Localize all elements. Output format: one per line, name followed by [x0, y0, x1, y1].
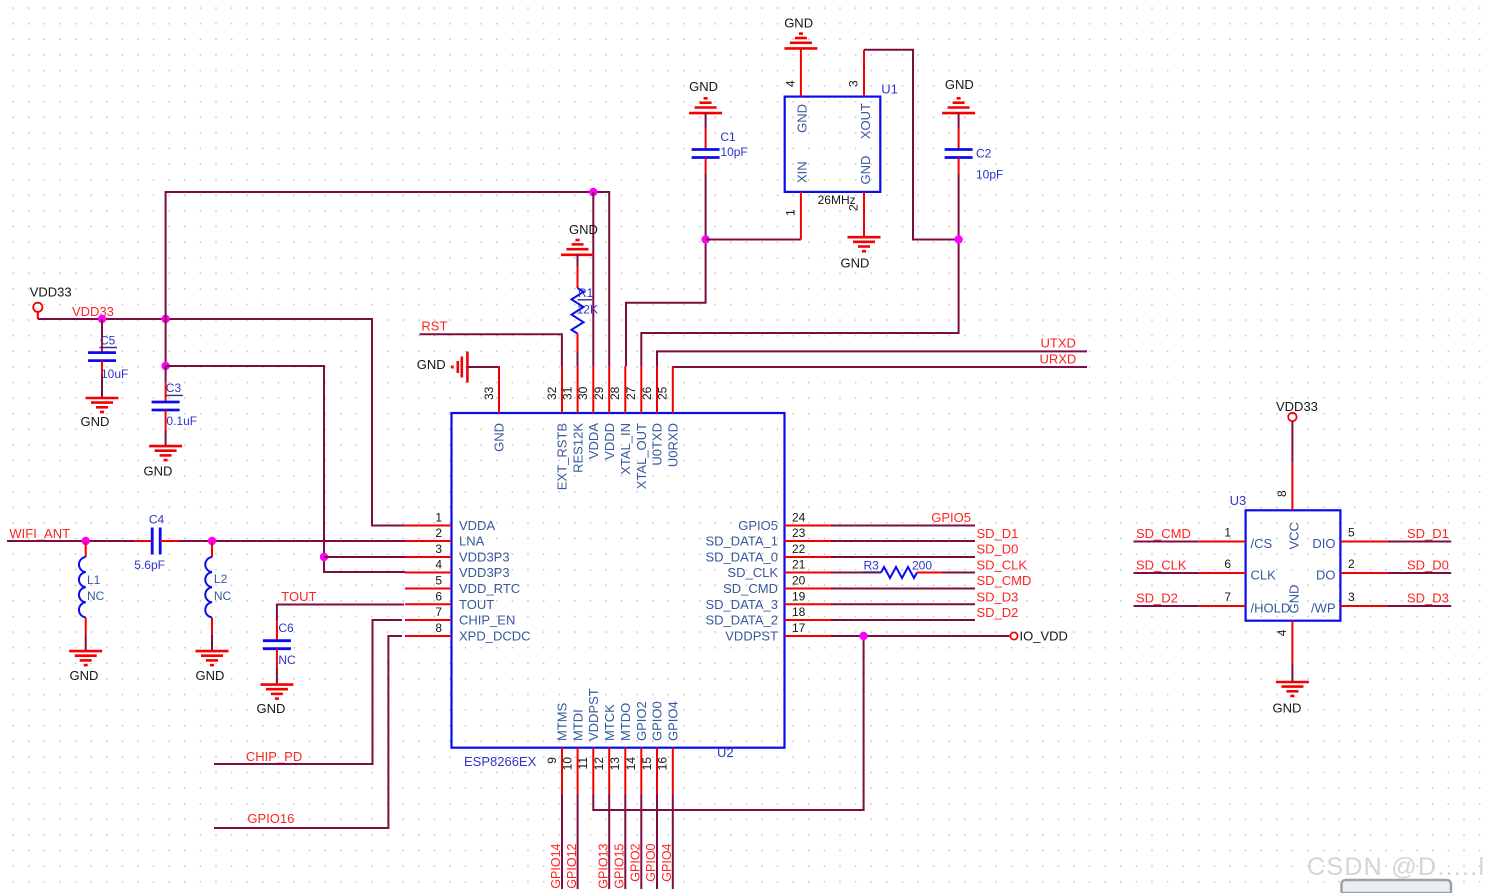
junction VDD3P3 pin3 tap: [320, 553, 328, 561]
U2 pin 9 MTMS stub: [561, 748, 563, 795]
wire SD_DATA_3: [831, 603, 975, 605]
C2 bottom lead: [958, 158, 960, 175]
wire VDD33 to C5: [101, 319, 103, 338]
wire VDDPST pin11 to pin17 riser: [593, 636, 863, 810]
svg-text:GPIO5: GPIO5: [931, 510, 971, 525]
svg-text:L1: L1: [87, 573, 101, 587]
C4 left lead: [134, 540, 152, 542]
svg-text:1: 1: [783, 209, 797, 216]
svg-text:RES12K: RES12K: [570, 423, 585, 473]
svg-text:27: 27: [624, 386, 638, 400]
capacitor C2: [945, 150, 973, 158]
svg-text:R3: R3: [864, 559, 880, 573]
U3 pin 2 DO stub: [1340, 572, 1387, 574]
resistor R3 200: [881, 567, 917, 578]
svg-text:CSDN @D.....l: CSDN @D.....l: [1307, 853, 1485, 881]
ground above U1 pin4: [784, 34, 817, 49]
U3 pin 6 CLK stub: [1199, 572, 1246, 574]
svg-text:MTMS: MTMS: [555, 702, 570, 741]
U2 pin 3 VDD3P3 stub: [405, 556, 452, 558]
svg-text:21: 21: [792, 558, 806, 572]
wire U0RXD to URXD: [673, 366, 1087, 368]
svg-text:SD_D1: SD_D1: [977, 526, 1019, 541]
wire CHIP_PD to U2 pin7 CHIP_EN: [214, 620, 402, 764]
svg-text:U2: U2: [717, 745, 734, 760]
wire GPIO0 down from pin 15: [656, 795, 658, 890]
wire VDD33 rail to U2 pin1 VDDA: [38, 319, 405, 526]
svg-text:2: 2: [847, 204, 861, 211]
wire SD_CLK to U3 pin 6: [1134, 572, 1199, 574]
svg-text:SD_D2: SD_D2: [1136, 590, 1178, 605]
junction LNA/L2: [208, 537, 216, 545]
U2 pin 4 VDD3P3 stub: [405, 572, 452, 574]
ground above C1: [689, 98, 722, 113]
U2 pin 31 RES12K stub: [577, 366, 579, 413]
IC U3 body: [1246, 510, 1341, 620]
svg-text:GPIO4: GPIO4: [666, 701, 681, 741]
svg-text:CHIP_EN: CHIP_EN: [459, 613, 515, 628]
wire VDD3P3 to U2 pin3: [324, 556, 405, 558]
svg-text:7: 7: [1224, 590, 1231, 604]
U2 pin 21 SD_CLK stub: [785, 572, 832, 574]
svg-text:22: 22: [792, 542, 806, 556]
junction WIFI_ANT/L1: [82, 537, 90, 545]
wire C3 to ground: [165, 430, 167, 446]
svg-text:RST: RST: [421, 319, 447, 334]
svg-text:XTAL_IN: XTAL_IN: [618, 423, 633, 475]
U3 pin 1 /CS stub: [1199, 541, 1246, 543]
ground below U3: [1276, 682, 1309, 696]
U2 pin 13 MTDO stub: [624, 748, 626, 795]
wire SD_CMD: [831, 588, 975, 590]
svg-text:1: 1: [435, 511, 442, 525]
svg-text:XPD_DCDC: XPD_DCDC: [459, 629, 531, 644]
wire C6 to ground: [276, 667, 278, 684]
svg-text:VDDD: VDDD: [602, 423, 617, 460]
svg-text:VCC: VCC: [1286, 522, 1301, 549]
wire XOUT to C2/XTAL_OUT net: [864, 50, 959, 240]
svg-text:URXD: URXD: [1039, 351, 1076, 366]
U2 pin 8 XPD_DCDC stub: [405, 635, 452, 637]
svg-text:SD_CLK: SD_CLK: [1136, 557, 1187, 572]
U2 pin 28 XTAL_IN stub: [624, 366, 626, 413]
resistor R1 12K: [572, 288, 584, 334]
svg-text:5: 5: [1348, 526, 1355, 540]
junction VDDPST riser: [859, 632, 867, 640]
svg-text:11: 11: [576, 757, 590, 770]
wire GPIO15 down from pin 13: [624, 795, 626, 890]
U1 pin3 stub: [863, 50, 865, 97]
svg-text:2: 2: [435, 526, 442, 540]
R1 bottom lead: [577, 334, 579, 352]
svg-text:VDD_RTC: VDD_RTC: [459, 581, 520, 596]
svg-text:17: 17: [792, 621, 806, 635]
svg-text:1: 1: [1224, 526, 1231, 540]
wire SD_DATA_0: [831, 556, 975, 558]
junction VDD33/C5: [98, 315, 106, 323]
svg-text:13: 13: [608, 757, 622, 771]
svg-text:DIO: DIO: [1312, 536, 1335, 551]
svg-text:23: 23: [792, 526, 806, 540]
C3 bottom lead: [165, 410, 167, 430]
svg-text:NC: NC: [214, 589, 232, 603]
wire C2/XTAL_OUT net to U2 pin27: [641, 174, 958, 366]
svg-text:29: 29: [592, 386, 606, 400]
watermark box: [1342, 880, 1452, 893]
svg-text:200: 200: [912, 559, 932, 573]
wire VDD33 down to C3 node: [165, 319, 167, 366]
wire R3 to SD_CLK label: [942, 572, 975, 574]
U2 pin 7 CHIP_EN stub: [405, 619, 452, 621]
svg-text:CLK: CLK: [1251, 568, 1277, 583]
wire VDDPST to IO_VDD: [831, 635, 1010, 637]
junction VDD pin30 tap: [589, 188, 597, 196]
svg-text:GPIO16: GPIO16: [247, 811, 294, 826]
U3 pin 3 /WP stub: [1340, 605, 1387, 607]
svg-text:/WP: /WP: [1311, 601, 1336, 616]
svg-text:8: 8: [435, 621, 442, 635]
svg-text:0.1uF: 0.1uF: [166, 414, 197, 428]
svg-text:VDDPST: VDDPST: [725, 629, 778, 644]
U2 pin 6 TOUT stub: [405, 603, 452, 605]
U2 pin 15 GPIO0 stub: [656, 748, 658, 795]
C6 top lead: [276, 621, 278, 640]
U1 pin4 stub: [800, 48, 802, 96]
svg-text:30: 30: [576, 386, 590, 400]
R1 top lead: [577, 267, 579, 289]
svg-text:GPIO5: GPIO5: [738, 518, 778, 533]
svg-text:10: 10: [560, 757, 574, 771]
wire VDD33 terminal stem: [37, 312, 39, 319]
junction VDD33/C3 riser: [161, 315, 169, 323]
capacitor C1: [692, 150, 720, 158]
svg-text:3: 3: [1348, 590, 1355, 604]
svg-text:VDDPST: VDDPST: [586, 688, 601, 741]
U3 pin 5 DIO stub: [1340, 541, 1387, 543]
wire SD_D0 from U3 pin 2: [1387, 572, 1451, 574]
ground below C3: [149, 446, 182, 460]
wire SD_DATA_2: [831, 619, 975, 621]
svg-text:DO: DO: [1316, 568, 1336, 583]
svg-text:SD_DATA_0: SD_DATA_0: [706, 550, 779, 565]
svg-text:WIFI_ANT: WIFI_ANT: [9, 526, 70, 541]
U2 pin 14 GPIO2 stub: [640, 748, 642, 795]
wire GPIO4 down from pin 16: [672, 795, 674, 890]
svg-text:3: 3: [847, 80, 861, 87]
U2 pin 26 U0TXD stub: [656, 366, 658, 413]
svg-text:3: 3: [435, 542, 442, 556]
svg-text:R1: R1: [578, 286, 594, 300]
svg-text:VDD33: VDD33: [1276, 399, 1318, 414]
ground below C6: [260, 685, 293, 699]
wire U3 pin4 to ground: [1291, 664, 1293, 682]
wire WIFI_ANT to C4: [7, 540, 134, 542]
svg-text:GND: GND: [1286, 585, 1301, 614]
wire L1 to ground: [85, 634, 87, 651]
svg-text:L2: L2: [214, 572, 228, 586]
svg-text:26: 26: [640, 386, 654, 400]
wire GPIO14 down from pin 9: [561, 795, 563, 890]
svg-text:6: 6: [1224, 557, 1231, 571]
inductor L1: [79, 557, 86, 617]
svg-text:SD_CMD: SD_CMD: [1136, 526, 1191, 541]
wire SD_D2 to U3 pin 7: [1134, 605, 1199, 607]
wire ground to C1: [705, 113, 707, 129]
svg-text:C3: C3: [166, 381, 182, 395]
wire TOUT to U2 pin6: [277, 605, 404, 622]
svg-text:XOUT: XOUT: [858, 103, 873, 139]
U2 pin 12 MTCK stub: [608, 748, 610, 795]
U2 pin 5 VDD_RTC stub: [405, 588, 452, 590]
ground above C2: [942, 98, 975, 113]
svg-text:VDD3P3: VDD3P3: [459, 565, 510, 580]
VDD33 terminal circle above U3: [1288, 413, 1296, 421]
svg-text:SD_D3: SD_D3: [1407, 590, 1449, 605]
svg-text:GPIO2: GPIO2: [634, 701, 649, 741]
svg-text:SD_D0: SD_D0: [1407, 557, 1449, 572]
U1 pin2 stub: [863, 192, 865, 237]
svg-text:5.6pF: 5.6pF: [134, 558, 165, 572]
svg-text:C5: C5: [100, 334, 116, 348]
C5 top lead: [101, 338, 103, 353]
svg-text:C1: C1: [720, 130, 736, 144]
svg-text:VDD3P3: VDD3P3: [459, 550, 510, 565]
svg-text:GND: GND: [858, 156, 873, 185]
svg-text:SD_DATA_3: SD_DATA_3: [706, 597, 779, 612]
U2 pin 1 VDDA stub: [405, 525, 452, 527]
capacitor C3: [152, 402, 180, 410]
U2 pin 16 GPIO4 stub: [672, 748, 674, 795]
junction C1/XIN: [701, 235, 709, 243]
svg-text:10uF: 10uF: [101, 367, 128, 381]
svg-text:31: 31: [560, 386, 574, 400]
svg-text:EXT_RSTB: EXT_RSTB: [555, 423, 570, 490]
wire ground to pin33: [467, 366, 498, 368]
svg-text:GND: GND: [417, 357, 446, 372]
wire C1/XTAL_IN net to U2 pin28: [626, 174, 706, 366]
svg-text:33: 33: [482, 386, 496, 400]
svg-text:NC: NC: [87, 589, 105, 603]
U2 pin 2 LNA stub: [405, 540, 452, 542]
svg-text:SD_CLK: SD_CLK: [977, 558, 1028, 573]
svg-text:SD_CMD: SD_CMD: [723, 581, 778, 596]
wire GPIO12 down from pin 10: [577, 795, 579, 890]
U2 pin 25 U0RXD stub: [672, 366, 674, 413]
svg-text:CHIP_PD: CHIP_PD: [246, 749, 302, 764]
ground below C5: [86, 398, 119, 412]
svg-text:U0RXD: U0RXD: [666, 423, 681, 467]
svg-text:14: 14: [624, 757, 638, 771]
ground above R1: [561, 240, 594, 255]
svg-text:7: 7: [435, 605, 442, 619]
svg-text:GND: GND: [492, 423, 507, 452]
svg-text:2: 2: [1348, 557, 1355, 571]
svg-text:4: 4: [1275, 629, 1289, 636]
svg-text:GND: GND: [689, 79, 718, 94]
IO_VDD terminal circle: [1010, 632, 1017, 639]
svg-text:GND: GND: [784, 16, 813, 31]
svg-text:GND: GND: [196, 668, 225, 683]
crystal U1 26MHz body: [785, 97, 881, 192]
ground below L2: [196, 651, 229, 665]
svg-text:UTXD: UTXD: [1041, 336, 1076, 351]
wire VDD33 to U3 pin8: [1291, 421, 1293, 462]
svg-text:VDDA: VDDA: [586, 423, 601, 459]
U2 pin 29 VDDD stub: [608, 366, 610, 413]
junction C2/XOUT: [954, 235, 962, 243]
svg-text:8: 8: [1275, 490, 1289, 497]
U2 pin 17 VDDPST stub: [785, 635, 832, 637]
svg-text:18: 18: [792, 605, 806, 619]
U3 pin8 stub VCC: [1291, 462, 1293, 510]
wire ground to C2: [958, 113, 960, 129]
svg-text:GND: GND: [81, 414, 110, 429]
wire to crystal pin1 XIN: [706, 239, 801, 241]
svg-text:C2: C2: [976, 147, 992, 161]
wire C3 node down: [165, 366, 167, 383]
svg-text:U3: U3: [1230, 493, 1247, 508]
svg-text:GPIO0: GPIO0: [650, 701, 665, 741]
R3 right lead: [917, 572, 942, 574]
U3 pin4 stub GND: [1291, 621, 1293, 664]
wire GPIO2 down from pin 14: [640, 795, 642, 890]
svg-text:SD_CLK: SD_CLK: [727, 565, 778, 580]
C4 right lead: [160, 540, 179, 542]
L2 bottom lead: [211, 618, 213, 635]
C1 top lead: [705, 129, 707, 149]
svg-text:SD_CMD: SD_CMD: [977, 573, 1032, 588]
C2 top lead: [958, 129, 960, 149]
wire GPIO16 to U2 pin8 XPD_DCDC: [214, 636, 402, 828]
svg-text:C6: C6: [278, 621, 294, 635]
wire SD_D1 from U3 pin 5: [1387, 541, 1451, 543]
wire C5 to ground: [101, 375, 103, 398]
svg-text:/HOLD: /HOLD: [1251, 601, 1291, 616]
svg-text:4: 4: [435, 558, 442, 572]
svg-text:24: 24: [792, 511, 806, 525]
U2 pin 23 SD_DATA_1 stub: [785, 540, 832, 542]
svg-text:28: 28: [608, 386, 622, 400]
wire SD_D3 from U3 pin 3: [1387, 605, 1451, 607]
wire GPIO5: [831, 525, 975, 527]
svg-text:20: 20: [792, 574, 806, 588]
U2 pin 32 EXT_RSTB stub: [561, 366, 563, 413]
wire U0TXD to UTXD: [657, 351, 1087, 366]
inductor L2: [205, 557, 212, 617]
ground below U1 pin2: [848, 237, 881, 251]
svg-text:12K: 12K: [577, 303, 598, 317]
C5 bottom lead: [101, 361, 103, 375]
svg-text:GND: GND: [841, 256, 870, 271]
svg-text:5: 5: [435, 574, 442, 588]
L1 bottom lead: [85, 618, 87, 635]
svg-text:9: 9: [545, 757, 559, 764]
wire R1 to U2 pin31 RES12K: [577, 352, 579, 367]
svg-text:VDD33: VDD33: [72, 304, 114, 319]
svg-text:SD_D1: SD_D1: [1407, 526, 1449, 541]
svg-text:IO_VDD: IO_VDD: [1020, 629, 1068, 644]
C3 top lead: [165, 383, 167, 402]
U2 pin 22 SD_DATA_0 stub: [785, 556, 832, 558]
svg-text:MTCK: MTCK: [602, 704, 617, 741]
wire SD_CLK to R3: [831, 572, 881, 574]
svg-text:GND: GND: [945, 77, 974, 92]
svg-text:25: 25: [656, 386, 670, 400]
svg-text:GND: GND: [1273, 701, 1302, 716]
U2 pin 11 VDDPST stub: [592, 748, 594, 795]
svg-text:VDDA: VDDA: [459, 518, 495, 533]
C6 bottom lead: [276, 649, 278, 668]
svg-text:SD_D3: SD_D3: [977, 590, 1019, 605]
capacitor C5: [88, 353, 116, 361]
svg-text:6: 6: [435, 589, 442, 603]
svg-text:GND: GND: [257, 701, 286, 716]
svg-text:SD_DATA_2: SD_DATA_2: [706, 613, 779, 628]
svg-text:MTDO: MTDO: [618, 703, 633, 741]
svg-text:10pF: 10pF: [976, 168, 1003, 182]
svg-text:19: 19: [792, 589, 806, 603]
svg-text:/CS: /CS: [1251, 536, 1273, 551]
svg-text:12: 12: [592, 757, 606, 771]
wire VDD3P3 to U2 pin4: [166, 366, 405, 572]
svg-text:U1: U1: [881, 81, 898, 96]
svg-text:TOUT: TOUT: [281, 589, 316, 604]
svg-text:XIN: XIN: [795, 161, 810, 183]
ground at U2 pin33: [452, 352, 467, 383]
U2 pin 20 SD_CMD stub: [785, 588, 832, 590]
ground below L1: [69, 651, 102, 665]
wire C4 to U2 pin2 LNA: [179, 540, 405, 542]
svg-text:15: 15: [640, 757, 654, 771]
wire VDD net to U2 pin29 VDDD: [166, 192, 610, 366]
svg-text:16: 16: [656, 757, 670, 771]
junction C3 node: [161, 362, 169, 370]
svg-text:32: 32: [545, 386, 559, 400]
svg-text:ESP8266EX: ESP8266EX: [464, 754, 537, 769]
U1 pin1 stub XIN: [800, 192, 802, 240]
wire RST to U2 pin32 EXT_RSTB: [420, 334, 562, 366]
svg-text:4: 4: [783, 80, 797, 87]
wire GPIO13 down from pin 12: [608, 795, 610, 890]
VDD33 power terminal circle: [33, 303, 42, 312]
svg-text:GND: GND: [569, 222, 598, 237]
capacitor C6: [263, 641, 291, 649]
svg-text:TOUT: TOUT: [459, 597, 494, 612]
svg-text:U0TXD: U0TXD: [650, 423, 665, 466]
svg-text:SD_D2: SD_D2: [977, 605, 1019, 620]
U2 pin 24 GPIO5 stub: [785, 525, 832, 527]
C1 bottom lead: [705, 158, 707, 175]
wire L2 to ground: [211, 634, 213, 651]
U2 pin 10 MTDI stub: [577, 748, 579, 795]
svg-text:GND: GND: [795, 104, 810, 133]
svg-text:GND: GND: [70, 668, 99, 683]
svg-text:LNA: LNA: [459, 534, 485, 549]
svg-text:XTAL_OUT: XTAL_OUT: [634, 423, 649, 489]
capacitor C4: [152, 528, 160, 555]
svg-text:NC: NC: [278, 653, 296, 667]
U3 pin 7 /HOLD stub: [1199, 605, 1246, 607]
wire VDD to U2 pin30 VDDA: [592, 192, 594, 366]
wire ground to R1: [577, 255, 579, 267]
svg-text:GND: GND: [144, 464, 173, 479]
svg-text:MTDI: MTDI: [570, 709, 585, 741]
svg-text:10pF: 10pF: [720, 145, 747, 159]
U2 pin 18 SD_DATA_2 stub: [785, 619, 832, 621]
L2 top lead: [211, 541, 213, 557]
svg-text:SD_D0: SD_D0: [977, 542, 1019, 557]
svg-text:C4: C4: [149, 513, 165, 527]
